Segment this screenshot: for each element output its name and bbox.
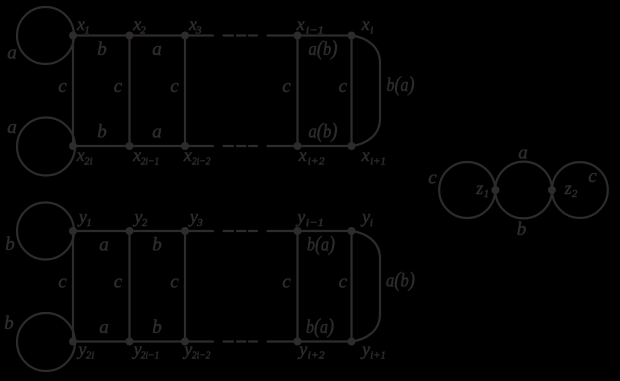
node y2i-1 (126, 338, 134, 346)
node z2 (548, 186, 556, 194)
node x2i-1 (126, 142, 134, 150)
label x2i (76, 145, 93, 168)
edge c x3-x2i-2 (184, 36, 186, 147)
edge c xi-xi+1 (350, 36, 352, 147)
node y2i (69, 338, 77, 346)
wire bottom row to yi+2 and yi+1 (268, 340, 352, 342)
node y2 (126, 227, 134, 235)
svg-text:a: a (152, 39, 162, 60)
svg-text:b: b (97, 122, 107, 143)
svg-text:y: y (182, 339, 192, 359)
svg-text:2: 2 (572, 188, 578, 200)
dashes top row y graph (224, 230, 258, 232)
svg-text:3: 3 (195, 25, 202, 37)
edge c xi-1 - xi+2 (296, 36, 298, 147)
wire bottom row y2i-y2i-2 (73, 340, 213, 342)
node y1 (69, 227, 77, 235)
node yi+1 (348, 338, 356, 346)
svg-text:b(a): b(a) (306, 314, 334, 338)
svg-text:3: 3 (196, 217, 203, 229)
node x2i-2 (181, 142, 189, 150)
svg-text:i−1: i−1 (306, 217, 324, 229)
node x2i (69, 142, 77, 150)
svg-text:b: b (4, 313, 14, 334)
svg-text:x: x (298, 145, 307, 165)
dashes bottom row x graph (224, 145, 258, 147)
svg-text:c: c (114, 272, 123, 293)
svg-text:y: y (360, 339, 370, 359)
node x2 (126, 32, 134, 40)
svg-text:z: z (564, 178, 572, 198)
svg-text:b: b (5, 234, 15, 255)
svg-text:a(b): a(b) (309, 119, 338, 143)
svg-text:c: c (58, 76, 67, 97)
svg-text:a(b): a(b) (386, 268, 415, 292)
svg-text:y: y (360, 207, 370, 227)
svg-text:a: a (152, 122, 162, 143)
svg-text:b: b (97, 39, 107, 60)
svg-text:2i: 2i (86, 350, 95, 362)
svg-text:i: i (370, 25, 373, 37)
node xi-1 (294, 32, 302, 40)
dashes top row x graph (224, 34, 258, 36)
svg-text:y: y (295, 207, 305, 227)
svg-text:a: a (518, 142, 528, 163)
node yi-1 (294, 227, 302, 235)
svg-text:a: a (7, 42, 17, 63)
label yi+2 (297, 339, 325, 362)
label xi+2 (298, 145, 326, 168)
svg-text:b(a): b(a) (307, 232, 335, 256)
svg-text:c: c (282, 76, 291, 97)
svg-text:a: a (7, 117, 17, 138)
node y3 (181, 227, 189, 235)
label xi (361, 14, 374, 37)
curved edge b(a) xi-xi+1 (352, 36, 381, 147)
node xi+2 (294, 142, 302, 150)
wire bottom row x2i-x2i-2 (73, 145, 213, 147)
svg-text:z: z (475, 178, 483, 198)
wire top row x1-x3 (73, 34, 213, 36)
node yi (348, 227, 356, 235)
svg-text:a: a (99, 235, 109, 256)
node z1 (491, 186, 499, 194)
svg-text:c: c (170, 272, 179, 293)
svg-text:c: c (114, 76, 123, 97)
svg-text:a(b): a(b) (309, 36, 338, 60)
wire top row to yi-1 and yi (268, 230, 352, 232)
svg-text:i+2: i+2 (308, 156, 326, 168)
edge c x1-x2i (72, 36, 74, 147)
label yi+1 (360, 339, 386, 362)
self-loop b at y1 (17, 203, 74, 260)
wire bottom row to xi+2 and xi+1 (268, 145, 352, 147)
svg-text:b: b (152, 317, 162, 338)
svg-text:2: 2 (140, 25, 146, 37)
self-loop a at x2i (17, 118, 75, 176)
svg-text:2: 2 (142, 217, 148, 229)
node y2i-2 (181, 338, 189, 346)
svg-text:b: b (152, 235, 162, 256)
svg-text:i+1: i+1 (370, 350, 386, 362)
svg-text:c: c (339, 76, 348, 97)
self-loop b at y2i (17, 313, 75, 371)
svg-text:i: i (370, 217, 373, 229)
label yi-1 (295, 207, 324, 230)
label x2i-1 (132, 145, 159, 168)
label y2i (76, 339, 94, 362)
svg-text:c: c (339, 272, 348, 293)
edge c x2-x2i-1 (128, 36, 130, 147)
label z1 (475, 178, 489, 200)
node yi+2 (294, 338, 302, 346)
svg-text:a: a (99, 317, 109, 338)
svg-text:i+2: i+2 (308, 350, 326, 362)
edge c y2-y2i-1 (128, 231, 130, 342)
svg-text:b: b (517, 219, 527, 240)
svg-text:x: x (183, 145, 192, 165)
svg-text:1: 1 (86, 217, 92, 229)
label y2i-1 (132, 339, 160, 362)
edge c yi-yi+1 (350, 231, 352, 342)
svg-text:2i−1: 2i−1 (141, 156, 160, 168)
node x1 (69, 32, 77, 40)
svg-text:c: c (170, 76, 179, 97)
svg-text:2i: 2i (84, 156, 93, 168)
svg-text:2i−2: 2i−2 (192, 156, 211, 168)
self-loop c at z1 (439, 162, 495, 218)
label y2 (132, 207, 147, 230)
edge c y3-y2i-2 (184, 231, 186, 342)
svg-text:2i−2: 2i−2 (192, 350, 211, 362)
self-loop a at x1 (17, 7, 74, 64)
svg-text:2i−1: 2i−1 (141, 350, 160, 362)
edge c yi-1 - yi+2 (296, 231, 298, 342)
label xi-1 (296, 14, 324, 37)
label x2i-2 (183, 145, 211, 168)
svg-text:b(a): b(a) (387, 72, 415, 96)
node xi (348, 32, 356, 40)
svg-text:i+1: i+1 (370, 156, 386, 168)
svg-text:c: c (428, 167, 437, 188)
edge c y1-y2i (72, 231, 74, 342)
label xi+1 (361, 145, 386, 168)
label x3 (188, 14, 202, 37)
node xi+1 (348, 142, 356, 150)
svg-text:x: x (296, 14, 305, 34)
wire top row y1-y3 (73, 230, 213, 232)
label z2 (564, 178, 578, 200)
self-loop c at z2 (552, 162, 608, 218)
svg-text:x: x (361, 145, 370, 165)
node x3 (181, 32, 189, 40)
label x2 (132, 14, 146, 37)
wire top row to xi-1 and xi (268, 34, 352, 36)
label y2i-2 (182, 339, 211, 362)
curved edge a(b) yi-yi+1 (352, 231, 381, 342)
label y3 (188, 207, 203, 230)
svg-text:1: 1 (484, 188, 490, 200)
svg-text:c: c (282, 272, 291, 293)
double edge a,b z1-z2 (495, 162, 552, 219)
dashes bottom row y graph (224, 340, 258, 342)
svg-text:c: c (588, 166, 597, 187)
svg-text:i−1: i−1 (306, 25, 324, 37)
svg-text:c: c (58, 272, 67, 293)
svg-text:x: x (361, 14, 370, 34)
label x1 (76, 14, 90, 37)
label y1 (77, 207, 92, 230)
svg-text:1: 1 (84, 25, 90, 37)
svg-text:y: y (297, 339, 307, 359)
label yi (360, 207, 373, 230)
